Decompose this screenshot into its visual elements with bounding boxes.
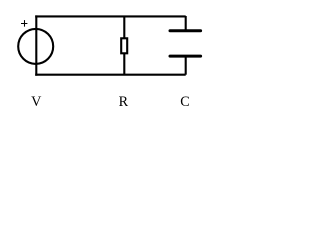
wire: left branch through source — [35, 15, 37, 75]
wire: capacitor bottom lead — [185, 56, 187, 75]
capacitor C top plate — [170, 29, 201, 32]
plus polarity mark — [21, 20, 27, 27]
resistor R (body) — [121, 38, 127, 53]
svg-text:C: C — [180, 94, 189, 110]
svg-text:R: R — [119, 94, 129, 110]
capacitor C bottom plate — [170, 55, 201, 58]
wire: resistor bottom lead — [123, 53, 125, 75]
voltage source V (circle) — [18, 29, 53, 64]
wire: bottom rail (node B) — [35, 74, 186, 76]
svg-text:V: V — [31, 94, 42, 110]
wire: resistor top lead — [123, 16, 125, 39]
wire: capacitor top lead — [185, 16, 187, 31]
wire: top rail (node A) — [35, 15, 186, 17]
